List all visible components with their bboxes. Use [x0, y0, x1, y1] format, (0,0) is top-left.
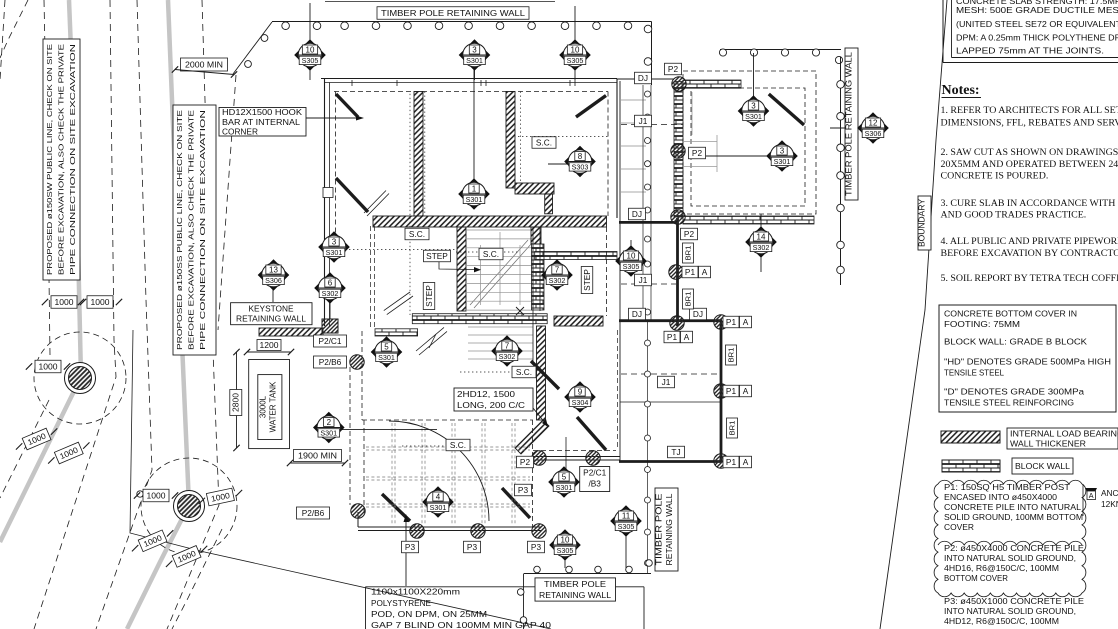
svg-text:P1: P1: [726, 386, 737, 396]
svg-text:A: A: [743, 386, 749, 396]
svg-text:RETAINING WALL: RETAINING WALL: [665, 493, 674, 566]
svg-text:BOTTOM COVER: BOTTOM COVER: [944, 573, 1008, 583]
svg-text:DPM: A 0.25mm THICK POLYTHENE: DPM: A 0.25mm THICK POLYTHENE DPM: [956, 32, 1118, 42]
svg-text:S.C.: S.C.: [536, 137, 552, 147]
svg-text:P1: P1: [685, 267, 696, 277]
svg-text:1100x1100X220mm: 1100x1100X220mm: [371, 587, 460, 597]
svg-text:10: 10: [571, 45, 580, 54]
svg-text:P2: P2: [520, 457, 531, 467]
svg-text:DJ: DJ: [693, 309, 703, 319]
svg-text:MESH: 500E GRADE DUCTILE MESH: MESH: 500E GRADE DUCTILE MESH: [956, 5, 1118, 15]
svg-text:CONCRETE IS POURED.: CONCRETE IS POURED.: [941, 171, 1049, 182]
svg-text:S302: S302: [549, 276, 566, 285]
svg-text:AND GOOD TRADES PRACTICE.: AND GOOD TRADES PRACTICE.: [941, 210, 1087, 221]
svg-text:8: 8: [578, 152, 583, 161]
svg-text:S305: S305: [618, 522, 635, 531]
svg-text:LONG, 200 C/C: LONG, 200 C/C: [457, 400, 525, 410]
svg-text:BR1: BR1: [684, 292, 693, 307]
svg-text:/B3: /B3: [588, 479, 601, 489]
svg-text:DJ: DJ: [632, 209, 642, 219]
svg-text:P2: P2: [684, 229, 695, 239]
svg-text:(UNITED STEEL SE72 OR EQUIVALE: (UNITED STEEL SE72 OR EQUIVALENT): [956, 19, 1118, 29]
svg-text:GAP 7 BLIND ON 100MM MIN GAP 4: GAP 7 BLIND ON 100MM MIN GAP 40: [371, 620, 551, 629]
svg-text:P3: P3: [518, 485, 529, 495]
svg-text:S301: S301: [466, 56, 483, 65]
svg-text:S304: S304: [572, 398, 589, 407]
svg-text:BEFORE EXCAVATION BY CONTRACTO: BEFORE EXCAVATION BY CONTRACTOR.: [941, 248, 1118, 259]
svg-text:3. CURE SLAB IN ACCORDANCE WIT: 3. CURE SLAB IN ACCORDANCE WITH NZS 3109: [941, 198, 1118, 209]
svg-text:TJ: TJ: [671, 447, 680, 457]
svg-text:J1: J1: [662, 377, 671, 387]
svg-text:BAR AT INTERNAL: BAR AT INTERNAL: [222, 117, 300, 127]
svg-text:S.C.: S.C.: [516, 367, 532, 377]
svg-text:S303: S303: [572, 163, 589, 172]
svg-text:TIMBER POLE: TIMBER POLE: [544, 579, 607, 589]
svg-text:BR1: BR1: [727, 348, 736, 363]
svg-text:P2/C1: P2/C1: [583, 468, 606, 478]
svg-text:A: A: [1089, 491, 1094, 500]
svg-text:S.C.: S.C.: [450, 440, 466, 450]
svg-text:S301: S301: [745, 112, 762, 121]
svg-text:3: 3: [332, 237, 337, 246]
svg-text:S301: S301: [556, 483, 573, 492]
svg-text:4. ALL PUBLIC AND PRIVATE PIPE: 4. ALL PUBLIC AND PRIVATE PIPEWORK TO BE: [941, 236, 1118, 247]
svg-text:A: A: [684, 332, 690, 342]
svg-text:P2: P2: [668, 64, 679, 74]
svg-text:4: 4: [436, 492, 441, 501]
svg-text:P3: P3: [531, 542, 542, 552]
svg-text:P2/B6: P2/B6: [302, 508, 325, 518]
svg-text:3: 3: [780, 146, 785, 155]
svg-text:TIMBER POLE: TIMBER POLE: [655, 494, 664, 566]
svg-text:BEFORE EXCAVATION, ALSO CHECK: BEFORE EXCAVATION, ALSO CHECK THE PRIVAT…: [57, 44, 66, 275]
svg-text:P1: P1: [667, 332, 678, 342]
svg-text:20X5MM AND OPERATED BETWEEN 24: 20X5MM AND OPERATED BETWEEN 24 TO 48: [941, 159, 1118, 170]
svg-text:S306: S306: [865, 129, 882, 138]
svg-text:S302: S302: [499, 352, 516, 361]
svg-text:P2/B6: P2/B6: [319, 357, 342, 367]
svg-text:S301: S301: [320, 429, 337, 438]
svg-text:S301: S301: [774, 157, 791, 166]
svg-text:9: 9: [578, 387, 583, 396]
svg-text:3: 3: [472, 45, 477, 54]
svg-text:BEFORE EXCAVATION, ALSO CHECK: BEFORE EXCAVATION, ALSO CHECK THE PRIVAT…: [187, 110, 196, 350]
svg-text:P2/C1: P2/C1: [318, 336, 341, 346]
svg-text:DJ: DJ: [638, 73, 648, 83]
svg-text:S.C.: S.C.: [483, 249, 499, 259]
svg-text:10: 10: [306, 45, 315, 54]
svg-text:2HD12, 1500: 2HD12, 1500: [457, 389, 515, 399]
svg-text:P3: P3: [467, 542, 478, 552]
svg-text:CONCRETE BOTTOM COVER IN: CONCRETE BOTTOM COVER IN: [944, 309, 1077, 319]
svg-text:10: 10: [627, 251, 636, 260]
svg-text:BR1: BR1: [728, 421, 737, 436]
svg-text:INTO NATURAL SOLID GROUND,: INTO NATURAL SOLID GROUND,: [944, 553, 1076, 563]
svg-text:A: A: [702, 267, 708, 277]
svg-text:STEP: STEP: [424, 285, 434, 307]
svg-text:POLYSTYRENE: POLYSTYRENE: [371, 598, 431, 608]
svg-text:TENSILE STEEL REINFORCING: TENSILE STEEL REINFORCING: [944, 398, 1074, 408]
svg-text:S305: S305: [567, 56, 584, 65]
svg-text:5. SOIL REPORT BY TETRA TECH C: 5. SOIL REPORT BY TETRA TECH COFFEY, REF: [941, 273, 1118, 284]
svg-text:3: 3: [751, 101, 756, 110]
svg-text:S305: S305: [302, 56, 319, 65]
svg-text:1: 1: [472, 184, 477, 193]
svg-text:1. REFER TO ARCHITECTS FOR ALL: 1. REFER TO ARCHITECTS FOR ALL SETOUT: [941, 105, 1118, 116]
svg-text:3000L: 3000L: [259, 395, 268, 418]
svg-text:4HD12, R6@150C/C, 100MM: 4HD12, R6@150C/C, 100MM: [944, 616, 1059, 626]
svg-text:PIPE CONNECTION ON SITE EXCAVA: PIPE CONNECTION ON SITE EXCAVATION: [68, 44, 77, 275]
svg-text:WATER TANK: WATER TANK: [269, 381, 278, 432]
svg-text:TENSILE STEEL: TENSILE STEEL: [944, 368, 1004, 378]
svg-text:RETAINING WALL: RETAINING WALL: [236, 314, 306, 324]
svg-text:"D" DENOTES GRADE 300MPa: "D" DENOTES GRADE 300MPa: [944, 387, 1084, 397]
svg-text:P1: P1: [726, 317, 737, 327]
svg-text:12KN: 12KN: [1101, 499, 1118, 509]
svg-text:FOOTING: 75MM: FOOTING: 75MM: [944, 319, 1020, 329]
svg-text:1000: 1000: [91, 298, 111, 307]
svg-text:CONCRETE PILE INTO NATURAL: CONCRETE PILE INTO NATURAL: [944, 502, 1081, 512]
svg-text:2. SAW CUT AS SHOWN ON DRAWING: 2. SAW CUT AS SHOWN ON DRAWINGS. SAW C: [941, 147, 1118, 158]
svg-text:S.C.: S.C.: [409, 229, 425, 239]
svg-text:STEP: STEP: [426, 251, 448, 261]
svg-text:1900 MIN: 1900 MIN: [298, 450, 337, 460]
svg-text:DIMENSIONS, FFL, REBATES AND: DIMENSIONS, FFL, REBATES AND SERVICES: [941, 118, 1118, 129]
svg-text:S302: S302: [322, 289, 339, 298]
svg-text:13: 13: [269, 265, 278, 274]
svg-text:2000 MIN: 2000 MIN: [185, 59, 223, 69]
svg-text:CORNER: CORNER: [222, 127, 258, 137]
svg-text:1000: 1000: [39, 362, 59, 371]
svg-text:LAPPED 75mm AT THE JOINTS.: LAPPED 75mm AT THE JOINTS.: [956, 46, 1104, 56]
svg-text:S305: S305: [623, 262, 640, 271]
svg-text:S301: S301: [326, 248, 343, 257]
svg-text:P1: P1: [726, 457, 737, 467]
svg-text:1000: 1000: [147, 491, 167, 500]
svg-text:S301: S301: [378, 353, 395, 362]
svg-text:2: 2: [327, 418, 332, 427]
svg-text:S305: S305: [557, 546, 574, 555]
svg-text:PROPOSED ø150SW PUBLIC LINE, C: PROPOSED ø150SW PUBLIC LINE, CHECK ON SI…: [45, 44, 54, 275]
svg-text:TIMBER POLE RETAINING WALL: TIMBER POLE RETAINING WALL: [844, 52, 854, 196]
svg-text:SOLID GROUND, 100MM BOTTOM: SOLID GROUND, 100MM BOTTOM: [944, 512, 1083, 522]
svg-text:S301: S301: [466, 195, 483, 204]
svg-text:INTO NATURAL SOLID GROUND,: INTO NATURAL SOLID GROUND,: [944, 606, 1076, 616]
svg-text:5: 5: [562, 472, 567, 481]
svg-text:S301: S301: [430, 503, 447, 512]
svg-text:P3: P3: [405, 542, 416, 552]
svg-text:KEYSTONE: KEYSTONE: [248, 304, 293, 314]
svg-text:"HD" DENOTES GRADE 500MPa HIGH: "HD" DENOTES GRADE 500MPa HIGH: [944, 357, 1111, 367]
svg-text:1000: 1000: [55, 298, 75, 307]
svg-text:1200: 1200: [260, 341, 280, 350]
svg-text:WALL THICKENER: WALL THICKENER: [1010, 439, 1086, 449]
svg-text:14: 14: [757, 232, 766, 241]
svg-text:J1: J1: [639, 275, 648, 285]
svg-text:S306: S306: [265, 276, 282, 285]
svg-text:5: 5: [384, 342, 389, 351]
svg-text:7: 7: [555, 265, 560, 274]
svg-text:2800: 2800: [232, 392, 241, 412]
svg-text:S302: S302: [753, 243, 770, 252]
svg-text:PROPOSED ø150SS PUBLIC LINE, C: PROPOSED ø150SS PUBLIC LINE, CHECK ON SI…: [175, 110, 184, 350]
svg-text:12: 12: [869, 118, 878, 127]
svg-text:TIMBER POLE RETAINING WALL: TIMBER POLE RETAINING WALL: [381, 8, 525, 18]
svg-text:10: 10: [561, 535, 570, 544]
svg-text:BOUNDARY: BOUNDARY: [918, 198, 927, 247]
svg-text:BR1: BR1: [684, 246, 693, 261]
svg-text:11: 11: [622, 511, 631, 520]
svg-text:4HD16, R6@150C/C, 100MM: 4HD16, R6@150C/C, 100MM: [944, 563, 1059, 573]
svg-text:P3: ø450X1000 CONCRETE PILE: P3: ø450X1000 CONCRETE PILE: [944, 596, 1085, 606]
svg-text:HD12X1500 HOOK: HD12X1500 HOOK: [222, 107, 303, 117]
svg-text:J1: J1: [639, 116, 648, 126]
svg-text:STEP: STEP: [582, 269, 592, 291]
svg-text:RETAINING WALL: RETAINING WALL: [539, 590, 611, 600]
svg-text:A: A: [743, 317, 749, 327]
svg-text:COVER: COVER: [944, 522, 974, 532]
svg-text:7: 7: [505, 341, 510, 350]
svg-text:P2: ø450X4000 CONCRETE PILE: P2: ø450X4000 CONCRETE PILE: [944, 543, 1085, 553]
svg-text:POD, ON DPM, ON 25MM: POD, ON DPM, ON 25MM: [371, 609, 487, 619]
svg-text:PIPE CONNECTION ON SITE EXCAVA: PIPE CONNECTION ON SITE EXCAVATION: [198, 110, 207, 350]
svg-text:ENCASED INTO ø450X4000: ENCASED INTO ø450X4000: [944, 492, 1057, 502]
svg-text:DJ: DJ: [632, 309, 642, 319]
svg-text:A: A: [743, 457, 749, 467]
svg-text:ANCH: ANCH: [1101, 488, 1118, 498]
svg-text:INTERNAL LOAD BEARING: INTERNAL LOAD BEARING: [1010, 429, 1118, 439]
svg-text:P1: 150SQ H5 TIMBER POST: P1: 150SQ H5 TIMBER POST: [944, 482, 1070, 492]
svg-text:BLOCK WALL: BLOCK WALL: [1015, 461, 1070, 471]
svg-text:BLOCK WALL: GRADE B BLOCK: BLOCK WALL: GRADE B BLOCK: [944, 337, 1088, 347]
svg-text:Notes:: Notes:: [942, 83, 980, 98]
svg-text:P2: P2: [692, 148, 703, 158]
svg-text:6: 6: [328, 278, 333, 287]
